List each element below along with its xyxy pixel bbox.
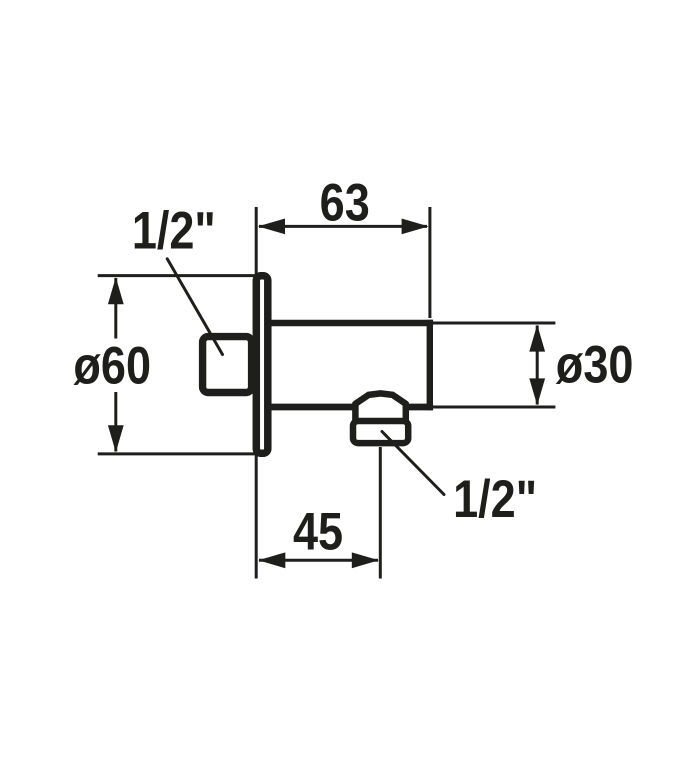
body right end edge: [427, 320, 433, 410]
body top outline line: [267, 320, 433, 327]
body bottom outline right segment: [407, 404, 433, 411]
dimension ø60: dimension line lower segment: [114, 392, 117, 452]
dimension ø30: dimension line: [536, 326, 539, 405]
dimension ø60: dimension line upper segment: [114, 278, 117, 339]
svg-text:1/2": 1/2": [132, 201, 216, 260]
body bottom outline left segment: [267, 404, 355, 411]
dimension 63: right arrowhead: [402, 219, 429, 235]
dimension 63: dimension line: [259, 225, 427, 228]
dimension ø60: down arrowhead: [108, 425, 124, 452]
dimension 63: right extension line: [428, 207, 431, 318]
dimension 45: dimension line: [259, 559, 378, 562]
dimension ø30: bottom extension line: [433, 406, 555, 409]
outlet hose nut: [353, 421, 408, 443]
dimension 45: right arrowhead: [352, 552, 379, 568]
dimension ø60: up arrowhead: [108, 277, 124, 304]
dimension 45: left arrowhead: [258, 552, 285, 568]
svg-text:45: 45: [293, 502, 343, 561]
dimension ø30: top extension line: [430, 322, 555, 325]
leader line for top 1/2" label: [167, 259, 222, 355]
dimension ø30: down arrowhead: [529, 378, 545, 405]
leader line for bottom 1/2" label: [382, 432, 444, 495]
dimension ø60: bottom extension line: [98, 452, 268, 455]
dimension ø30: up arrowhead: [529, 325, 545, 352]
outlet dome cap: [355, 393, 405, 421]
wall plate flange (side view): [256, 276, 268, 454]
svg-text:63: 63: [320, 173, 370, 232]
square union fitting behind wall: [203, 337, 252, 393]
svg-text:ø60: ø60: [73, 336, 151, 395]
dimension 63: left arrowhead: [258, 219, 285, 235]
dimension ø60: top extension line: [98, 274, 268, 277]
dimension 45: right extension line: [379, 447, 382, 579]
svg-text:1/2": 1/2": [453, 469, 537, 528]
dimension 63: left extension line / wall line: [255, 207, 258, 579]
svg-text:ø30: ø30: [556, 335, 634, 394]
